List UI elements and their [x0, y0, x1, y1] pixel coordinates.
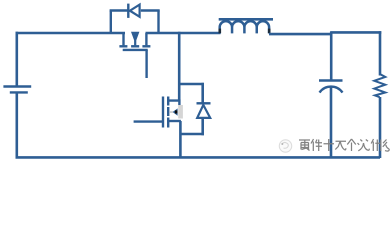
capacitor C1: [319, 81, 343, 93]
wire top-left horizontal: [16, 32, 126, 35]
diode D1: [128, 4, 139, 18]
transistor Q1 high-side MOSFET: [119, 32, 150, 78]
wire bottom horizontal: [16, 156, 381, 159]
wire source to bottom rail vertical: [179, 121, 182, 158]
resistor R1: [374, 74, 385, 97]
wire right rail upper: [379, 31, 382, 75]
wire capacitor branch upper: [330, 32, 333, 80]
wire snubber loop top left segment: [110, 9, 128, 11]
wire capacitor branch lower: [330, 87, 333, 158]
wire top right horizontal: [269, 33, 332, 36]
watermark logo: [279, 140, 291, 152]
battery V1: [3, 87, 31, 93]
wire snubber loop right vertical: [157, 11, 159, 34]
wire right rail lower: [379, 97, 382, 158]
wire switch-node vertical: [178, 32, 181, 101]
inductor L1: [219, 19, 274, 33]
wire top middle horizontal: [146, 32, 221, 35]
wire switch-node to diode top horizontal: [178, 83, 204, 86]
transistor Q2 low-side MOSFET: [134, 97, 183, 128]
wire left rail lower: [15, 92, 18, 158]
wire capacitor to rail horizontal: [330, 31, 381, 34]
wire snubber loop top right segment: [141, 9, 160, 11]
watermark text 硬件十万个为什么: [299, 139, 389, 151]
wire left rail upper: [15, 32, 18, 86]
diode D2: [197, 83, 211, 136]
wire snubber loop left vertical: [110, 11, 112, 34]
wire diode anode to source horizontal: [180, 133, 204, 136]
